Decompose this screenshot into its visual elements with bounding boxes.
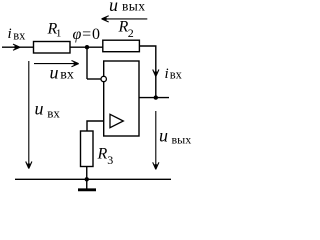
arrow u_vx toward op-amp <box>34 63 79 65</box>
wire input terminal to R1 <box>2 46 34 48</box>
svg-text:φ=0: φ=0 <box>73 26 101 43</box>
arrow u_vyx top pointing left <box>102 18 148 20</box>
resistor R2 <box>103 40 140 52</box>
svg-text:i: i <box>165 66 169 82</box>
node A junction dot (R1-R2) <box>85 45 89 49</box>
svg-text:вых: вых <box>122 0 145 14</box>
svg-text:i: i <box>8 26 12 42</box>
wire noninverting input to R3 top <box>87 121 104 131</box>
svg-text:u: u <box>50 62 59 82</box>
wire R3 bottom to ground bus <box>86 167 88 180</box>
arrow u_vx left vertical down <box>28 61 30 169</box>
wire op-amp output to terminal stub <box>139 97 169 99</box>
svg-text:u: u <box>159 126 168 146</box>
wire node A down to inverting input <box>86 47 88 79</box>
svg-text:вх: вх <box>47 106 60 121</box>
svg-text:2: 2 <box>128 26 134 40</box>
svg-text:u: u <box>35 99 44 119</box>
op-amp U1 body <box>104 61 139 136</box>
ground <box>86 179 88 189</box>
svg-text:u: u <box>109 0 118 15</box>
resistor R3 <box>81 131 94 167</box>
arrow i_vx down on right wire <box>153 70 159 77</box>
wire R2 right edge to output node B <box>139 46 155 98</box>
svg-text:вх: вх <box>170 67 183 81</box>
op-amp amplifier triangle <box>110 114 123 127</box>
ground junction dot <box>85 177 89 181</box>
svg-text:вх: вх <box>60 68 74 83</box>
svg-text:1: 1 <box>56 27 62 39</box>
arrow u_vyx right vertical down <box>155 111 157 169</box>
node B output junction dot <box>154 95 158 99</box>
wire into inverting input circle <box>87 78 101 80</box>
svg-text:R: R <box>97 146 108 163</box>
svg-text:3: 3 <box>107 153 113 167</box>
wire R1 to R2 through node A <box>70 46 103 48</box>
svg-text:вых: вых <box>172 132 192 146</box>
arrow i_vx on input wire <box>13 44 20 50</box>
resistor R1 <box>34 42 71 54</box>
op-amp inverting input circle <box>101 76 106 81</box>
wire ground bus <box>15 178 171 180</box>
svg-text:вх: вх <box>13 28 26 42</box>
